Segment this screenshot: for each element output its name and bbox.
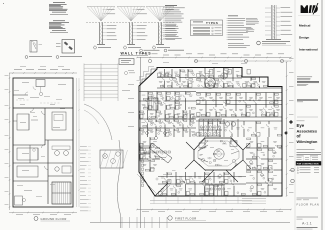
project name bbox=[297, 120, 305, 123]
gf right dim ticks bbox=[78, 78, 80, 207]
project location bbox=[297, 148, 315, 151]
wall section caption bbox=[257, 41, 261, 45]
gf wall mid bbox=[13, 107, 73, 109]
svg-text:Design: Design bbox=[299, 36, 309, 40]
title block left border bbox=[294, 0, 296, 230]
sheet title area bbox=[297, 197, 319, 199]
door clearance detail bbox=[30, 41, 37, 53]
ground floor outline bbox=[13, 78, 73, 207]
small site marks bbox=[125, 72, 128, 75]
waiting room extra marks bbox=[151, 167, 155, 170]
gf lower wall bbox=[13, 180, 48, 182]
ground floor bottom dimension bbox=[9, 212, 77, 214]
ground floor top dimension texts bbox=[14, 68, 22, 71]
left lower rooms bbox=[149, 137, 151, 158]
svg-text:International: International bbox=[299, 48, 318, 52]
detail captions bbox=[25, 56, 28, 59]
gf room B inner bbox=[52, 112, 66, 130]
svg-text:A-1.1: A-1.1 bbox=[302, 222, 312, 226]
right block corridor2 bbox=[196, 116, 282, 118]
gf top closet bbox=[36, 80, 45, 87]
texts below top dim line bbox=[163, 61, 169, 64]
equipment pad bbox=[100, 150, 123, 168]
site dimension text column bbox=[80, 145, 87, 148]
copyright row bbox=[297, 226, 318, 229]
lower corridor line bbox=[158, 176, 246, 178]
toilet accessories detail bbox=[62, 40, 75, 54]
bottom toilet stalls bbox=[205, 184, 225, 186]
svg-text:GROUND FLOOR: GROUND FLOOR bbox=[41, 217, 67, 221]
schedule note block 2 bbox=[53, 19, 65, 22]
SE diagonal rooms bbox=[226, 170, 238, 182]
toilet core stalls lower bbox=[199, 135, 221, 137]
wall type detail at x=131 bbox=[117, 6, 145, 8]
right corridor band2 bbox=[196, 100, 282, 102]
gf door arcs bbox=[42, 111, 46, 115]
sheet border right edge bbox=[321, 0, 323, 230]
sheet number area bbox=[297, 216, 319, 218]
MDI logo bbox=[301, 5, 308, 13]
curb line bbox=[117, 140, 120, 228]
svg-text:WALL TYPES: WALL TYPES bbox=[121, 52, 152, 56]
atrium small rooms NW bbox=[199, 143, 205, 148]
first floor building outline bbox=[139, 68, 282, 197]
data rows bbox=[297, 155, 304, 158]
upper-right rooms row1 bbox=[204, 68, 206, 74]
grid bubbles right bbox=[291, 168, 295, 172]
general notes column bbox=[165, 4, 177, 7]
right wing rooms bbox=[256, 137, 258, 167]
left-mid rooms bbox=[147, 110, 149, 120]
schedule note block 1 bbox=[53, 1, 65, 4]
grid bubbles top bbox=[148, 59, 151, 62]
gf right edge tick line bbox=[76, 78, 78, 207]
svg-text:TYPES: TYPES bbox=[206, 21, 218, 25]
wall type detail at x=160 bbox=[146, 6, 174, 8]
first floor top dimension line bbox=[137, 57, 291, 59]
right side markers bbox=[289, 120, 293, 124]
gf stair bbox=[52, 182, 71, 204]
svg-text:Medical: Medical bbox=[299, 24, 310, 28]
separator line bbox=[297, 116, 318, 118]
gf room A inner bbox=[17, 114, 29, 130]
right wing extra fixtures bbox=[249, 160, 253, 164]
round pod bbox=[221, 73, 227, 79]
reception desk diagonal bbox=[149, 143, 172, 163]
wall type detail at x=101 bbox=[87, 6, 115, 8]
first floor right dimension line bbox=[286, 62, 288, 196]
atrium center feature bbox=[214, 149, 224, 159]
NE step rooms bbox=[250, 77, 252, 81]
planters diamonds bbox=[145, 131, 149, 135]
seal line bbox=[297, 99, 318, 101]
right block rooms row3 bbox=[207, 121, 209, 132]
upper-right closets bbox=[210, 70, 213, 75]
NW terrace steps bbox=[139, 69, 157, 83]
atrium corner rooms bbox=[186, 142, 194, 150]
gf toilets bbox=[47, 140, 49, 204]
gf top room dashes bbox=[16, 99, 30, 101]
svg-text:FOR CONSTRUCTION: FOR CONSTRUCTION bbox=[297, 163, 319, 165]
svg-text:Wilmington: Wilmington bbox=[297, 140, 319, 144]
SE terrace steps bbox=[242, 198, 266, 200]
first floor bottom porch lines bbox=[150, 200, 252, 202]
property line vertical bbox=[140, 57, 142, 228]
utility line vertical bbox=[100, 168, 102, 222]
plan area caption top-left bbox=[140, 49, 143, 52]
extra atrium texture bbox=[210, 146, 214, 149]
upper-right corridor bbox=[196, 87, 282, 89]
svg-text:of: of bbox=[297, 134, 302, 139]
side note block bbox=[246, 17, 257, 20]
architect name block bbox=[297, 76, 312, 79]
left edge plan marks bbox=[128, 69, 134, 72]
ground floor label bbox=[34, 217, 38, 221]
extra note rows bbox=[228, 42, 244, 45]
second top dimension line bbox=[195, 60, 291, 62]
svg-text:FLOOR PLAN: FLOOR PLAN bbox=[297, 203, 320, 207]
door types table bbox=[191, 20, 223, 36]
atrium radial walls bbox=[198, 145, 208, 151]
ground floor left dimension line bbox=[9, 73, 11, 210]
waiting room label bbox=[160, 156, 166, 159]
drive curve bbox=[84, 104, 112, 140]
bottom band rooms bbox=[166, 172, 168, 178]
entry vestibule bbox=[155, 183, 168, 196]
left wall toilet rooms bbox=[140, 146, 150, 153]
bottom parking stalls bbox=[90, 222, 290, 224]
legend notes column bbox=[228, 15, 238, 18]
SW ramp lines bbox=[137, 174, 150, 187]
gf corridor walls bbox=[44, 108, 46, 145]
upper-left corridor bbox=[157, 87, 196, 89]
parking stripes upper bbox=[83, 64, 85, 102]
dilation circular feature bbox=[205, 78, 216, 89]
revision rows bbox=[297, 167, 299, 168]
atrium scatter bbox=[217, 150, 219, 151]
svg-text:Eye: Eye bbox=[297, 123, 305, 128]
stair block bbox=[148, 98, 158, 110]
atrium octagon bbox=[194, 138, 243, 170]
svg-text:FIRST FLOOR: FIRST FLOOR bbox=[175, 216, 197, 220]
typical wall section detail bbox=[270, 5, 272, 39]
exam tables circles bbox=[225, 122, 229, 126]
tiny mark upper-left bbox=[3, 3, 4, 4]
toilet core stalls upper bbox=[199, 118, 222, 120]
gf rooms lower-left bbox=[17, 148, 38, 160]
right block rooms row2 bbox=[205, 93, 207, 98]
gf partial top wall bbox=[13, 94, 28, 96]
left block rooms row2 bbox=[147, 92, 149, 100]
gf wall lower1 bbox=[13, 162, 73, 164]
atrium inner ring bbox=[198, 141, 239, 166]
first floor top dimension texts bbox=[140, 53, 146, 56]
line under logo bbox=[298, 15, 320, 17]
gf more interior details bbox=[20, 103, 25, 106]
key plan box bbox=[119, 59, 134, 65]
first floor label bbox=[168, 216, 172, 220]
notes caption bbox=[164, 49, 167, 52]
ground floor top dimension line bbox=[9, 72, 77, 74]
waiting room chairs bbox=[144, 151, 146, 153]
first floor bottom dimension line bbox=[137, 209, 291, 211]
gf extra interior marks bbox=[18, 97, 24, 100]
upper-left exam rooms bbox=[164, 69, 166, 77]
FOR CONSTRUCTION band bbox=[296, 161, 321, 165]
double rule bbox=[297, 152, 322, 154]
